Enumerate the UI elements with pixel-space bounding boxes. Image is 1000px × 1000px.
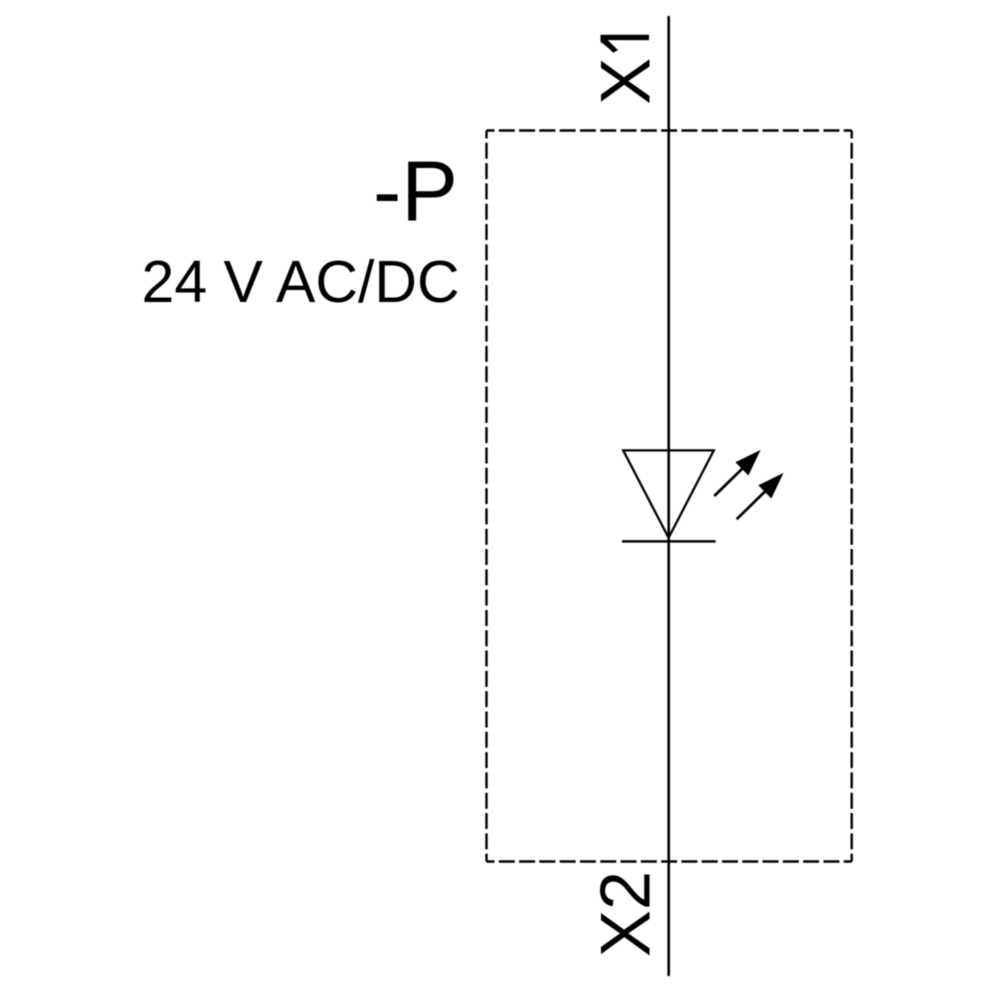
svg-text:-P: -P: [373, 145, 458, 240]
dashed enclosure box of pilot light module: top edge: [487, 129, 852, 131]
svg-text:24 V AC/DC: 24 V AC/DC: [142, 249, 460, 315]
svg-text:X2: X2: [585, 871, 664, 957]
LED emission arrow 2 shaft: [737, 489, 768, 519]
LED D1: cathode bar: [622, 540, 716, 543]
LED emission arrow 1 head: [735, 450, 760, 476]
dashed enclosure box: left edge: [485, 131, 487, 862]
svg-text:X: X: [585, 58, 664, 105]
LED emission arrow 2 head: [758, 473, 783, 499]
LED emission arrow 1 shaft: [714, 466, 745, 496]
LED D1: diode triangle: [623, 450, 714, 537]
dashed enclosure box: right edge: [851, 131, 853, 862]
dashed enclosure box: bottom edge: [487, 860, 852, 862]
wire: vertical conductor through lamp: [667, 16, 670, 976]
node X1: digit 1 drawn as path (sans-serif one): [601, 35, 650, 53]
